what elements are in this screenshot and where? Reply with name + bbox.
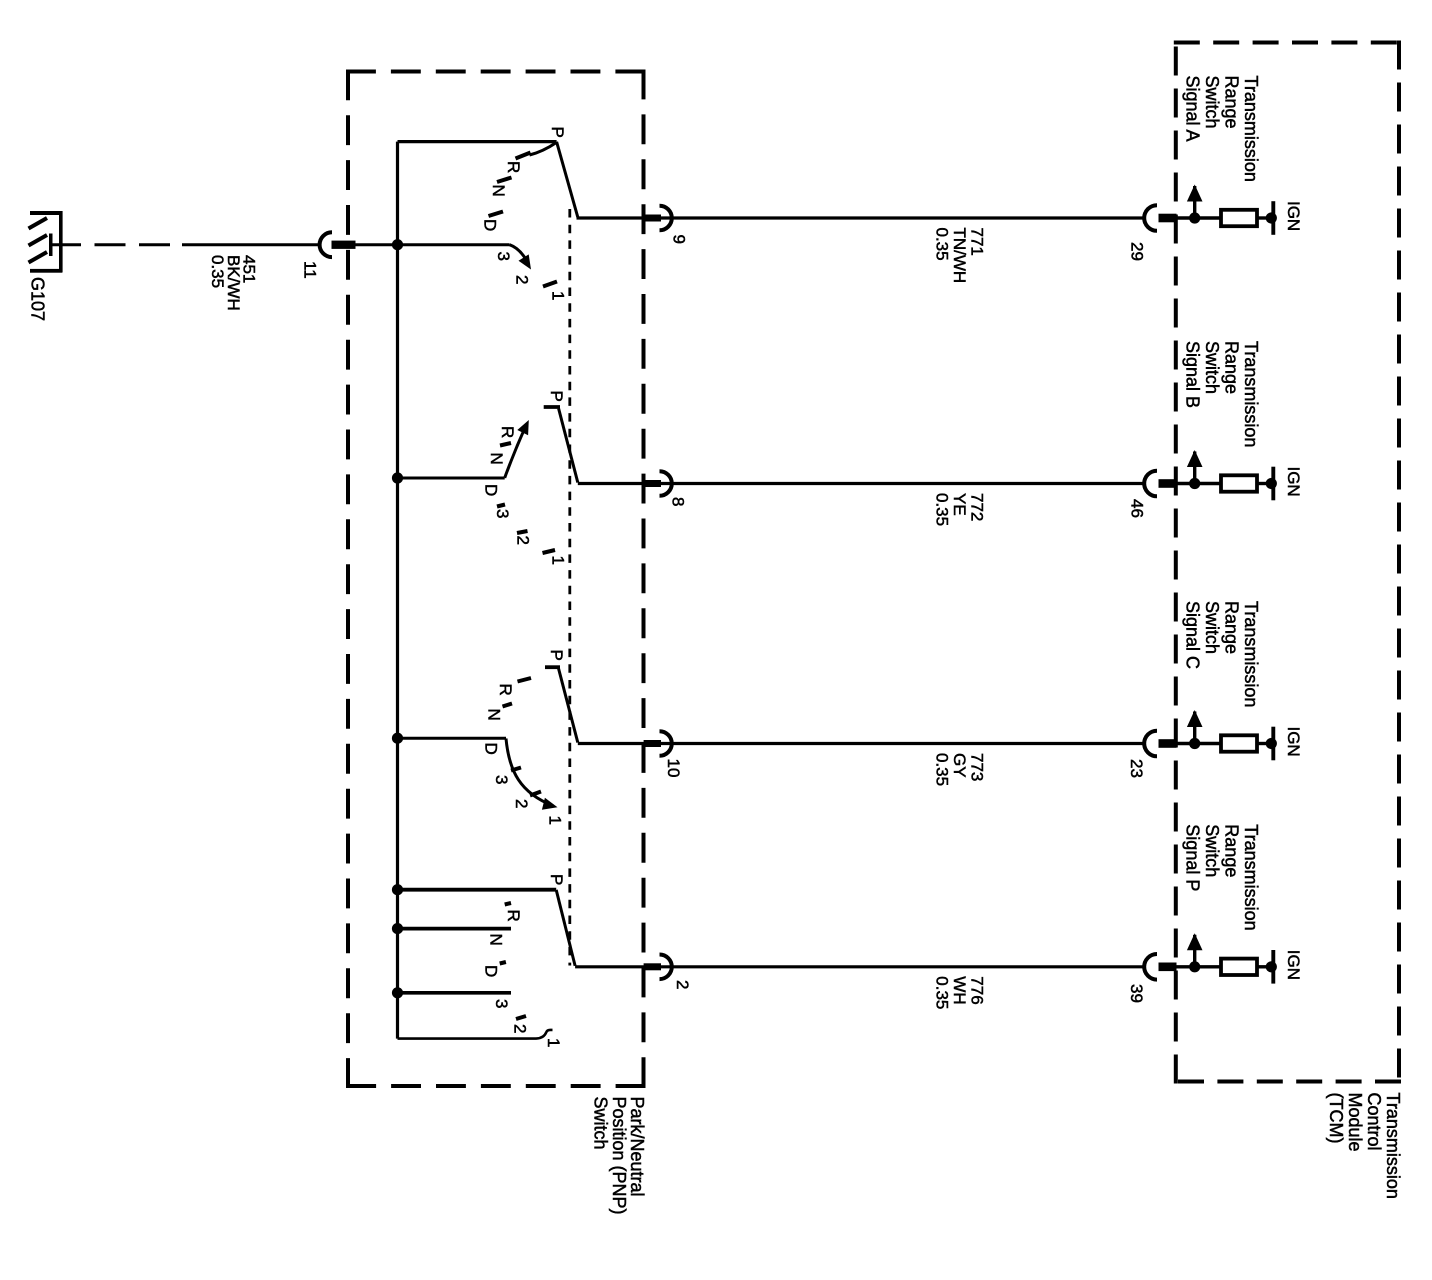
svg-text:773: 773	[968, 753, 987, 781]
svg-text:Transmission: Transmission	[1241, 824, 1261, 930]
svg-text:Control: Control	[1364, 1093, 1384, 1151]
svg-text:8: 8	[669, 497, 688, 506]
svg-text:IGN: IGN	[1284, 950, 1303, 980]
svg-text:39: 39	[1127, 984, 1146, 1003]
svg-text:0.35: 0.35	[933, 976, 952, 1009]
svg-text:Transmission: Transmission	[1241, 601, 1261, 707]
svg-text:D: D	[481, 219, 500, 231]
svg-text:3: 3	[492, 999, 511, 1008]
svg-text:46: 46	[1128, 499, 1147, 518]
svg-text:D: D	[482, 743, 501, 755]
svg-text:3: 3	[492, 775, 511, 784]
svg-text:11: 11	[301, 261, 320, 279]
svg-text:IGN: IGN	[1284, 201, 1303, 231]
svg-text:N: N	[489, 185, 508, 197]
svg-text:Park/Neutral: Park/Neutral	[627, 1097, 647, 1197]
svg-text:IGN: IGN	[1284, 467, 1303, 497]
svg-text:GY: GY	[950, 753, 969, 778]
svg-text:1: 1	[546, 816, 565, 825]
svg-text:0.35: 0.35	[933, 753, 952, 786]
svg-text:D: D	[482, 965, 501, 977]
svg-text:Switch: Switch	[1202, 341, 1222, 394]
svg-text:2: 2	[673, 980, 692, 989]
svg-text:2: 2	[512, 799, 531, 808]
svg-text:9: 9	[670, 235, 689, 244]
svg-text:776: 776	[968, 976, 987, 1004]
svg-text:771: 771	[968, 228, 987, 256]
svg-text:N: N	[487, 934, 506, 946]
svg-text:Range: Range	[1222, 341, 1242, 394]
svg-text:Range: Range	[1222, 824, 1242, 877]
svg-text:Range: Range	[1222, 601, 1242, 654]
svg-text:R: R	[504, 161, 523, 173]
svg-text:Switch: Switch	[591, 1097, 611, 1150]
svg-text:Switch: Switch	[1202, 601, 1222, 654]
svg-text:P: P	[547, 391, 566, 402]
svg-text:Signal P: Signal P	[1183, 824, 1203, 891]
svg-text:0.35: 0.35	[933, 493, 952, 526]
svg-text:D: D	[482, 484, 501, 496]
svg-text:1: 1	[549, 556, 568, 565]
svg-text:YE: YE	[950, 493, 969, 516]
svg-text:Signal A: Signal A	[1183, 76, 1203, 142]
svg-text:IGN: IGN	[1284, 727, 1303, 757]
svg-text:2: 2	[513, 275, 532, 284]
svg-text:G107: G107	[28, 277, 48, 321]
svg-text:Module: Module	[1345, 1093, 1365, 1152]
svg-text:3: 3	[493, 509, 512, 518]
svg-text:Signal C: Signal C	[1183, 601, 1203, 669]
svg-text:1: 1	[549, 291, 568, 300]
svg-text:3: 3	[494, 252, 513, 261]
svg-text:Switch: Switch	[1202, 76, 1222, 129]
svg-text:Transmission: Transmission	[1383, 1093, 1403, 1199]
svg-text:0.35: 0.35	[933, 228, 952, 261]
svg-text:Signal B: Signal B	[1183, 341, 1203, 408]
svg-text:Range: Range	[1222, 76, 1242, 129]
svg-text:P: P	[547, 650, 566, 661]
svg-text:0.35: 0.35	[208, 255, 227, 288]
svg-text:R: R	[498, 426, 517, 438]
svg-text:Transmission: Transmission	[1241, 76, 1261, 182]
svg-text:WH: WH	[950, 976, 969, 1004]
svg-text:2: 2	[514, 536, 533, 545]
svg-text:Switch: Switch	[1202, 824, 1222, 877]
svg-text:Position (PNP): Position (PNP)	[609, 1097, 629, 1215]
svg-text:R: R	[504, 910, 523, 922]
svg-text:(TCM): (TCM)	[1326, 1093, 1346, 1144]
svg-text:29: 29	[1128, 242, 1147, 261]
svg-text:2: 2	[511, 1024, 530, 1033]
svg-text:772: 772	[968, 493, 987, 521]
svg-text:P: P	[547, 874, 566, 885]
svg-text:10: 10	[664, 759, 683, 778]
svg-text:P: P	[548, 127, 567, 138]
svg-text:R: R	[496, 684, 515, 696]
svg-text:N: N	[485, 709, 504, 721]
svg-text:TN/WH: TN/WH	[950, 228, 969, 284]
svg-text:N: N	[487, 453, 506, 465]
svg-text:23: 23	[1127, 759, 1146, 778]
svg-text:Transmission: Transmission	[1241, 341, 1261, 447]
svg-text:1: 1	[544, 1038, 563, 1047]
